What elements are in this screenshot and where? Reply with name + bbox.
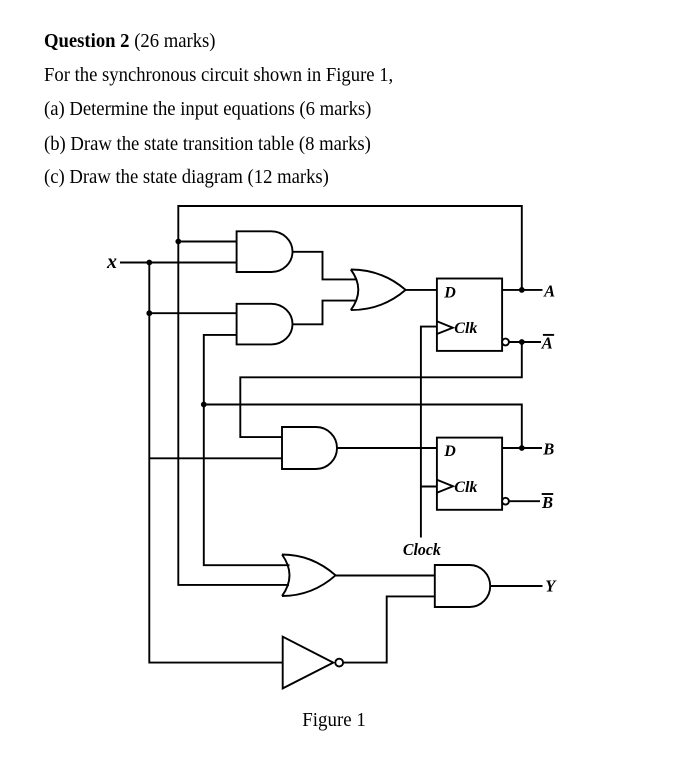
wire x branch to AND2 top input (149, 312, 236, 314)
node x input junction (146, 260, 152, 266)
wire branch A-rail to AND1 top input (178, 241, 236, 243)
wire Abar output (509, 341, 541, 343)
svg-text:A: A (541, 333, 553, 352)
and-gate U6 (output Y) (435, 565, 490, 607)
wire x-rail down to NOT input (149, 263, 282, 663)
svg-text:D: D (443, 284, 456, 301)
wire B-rail (AND2 bottom input down to OR2 top input) (204, 335, 290, 565)
svg-text:x: x (106, 251, 117, 273)
document text (44, 31, 216, 52)
wire x input (120, 262, 237, 264)
svg-text:Clk: Clk (454, 479, 477, 496)
and-gate U1 (top) (237, 231, 293, 272)
wire Bbar output (509, 500, 540, 502)
node x to AND2 junction (146, 310, 152, 316)
wire OR1 output to DFF1 D input (406, 289, 437, 291)
node A output junction (519, 287, 525, 293)
wire B feedback to B-rail (204, 405, 522, 449)
FF2 clock triangle (437, 480, 453, 493)
wire AND3 output to DFF2 D input (337, 447, 437, 449)
wire B output (502, 447, 542, 449)
wire top feedback A (from A output up and across) (178, 206, 522, 585)
FF2 Qbar bubble (502, 498, 509, 505)
wire Y output (490, 585, 542, 587)
or-gate U5 (bottom) (282, 555, 336, 597)
FF1 Qbar bubble (502, 339, 509, 346)
svg-text:Clk: Clk (454, 320, 477, 337)
wire NOT output to AND4 bottom input (343, 596, 435, 662)
svg-text:B: B (541, 493, 553, 512)
node Abar output junction (519, 339, 525, 345)
wire A output (502, 289, 542, 291)
wire clock rail (421, 327, 437, 538)
node B output junction (519, 445, 525, 451)
svg-text:B: B (542, 439, 554, 458)
wire Abar feedback to AND3 top input (240, 342, 522, 437)
Abar overbar (543, 334, 554, 336)
node A-rail to AND1 junction (175, 239, 181, 245)
wire AND2 output to OR1 bottom input (293, 301, 357, 325)
and-gate U2 (middle) (237, 304, 293, 345)
svg-text:Clock: Clock (403, 540, 441, 559)
flip-flop FF1 box (437, 279, 502, 351)
svg-text:Figure 1: Figure 1 (302, 709, 366, 731)
and-gate U4 (feeds DFF2) (282, 427, 337, 469)
wire x branch to AND3 bottom input (149, 457, 282, 459)
node B feedback junction (201, 402, 207, 408)
not-gate U7 (inverter) (283, 637, 334, 689)
svg-text:A: A (543, 281, 555, 300)
wire AND1 output to OR1 top input (293, 252, 357, 280)
inverter bubble (335, 659, 343, 667)
flip-flop FF2 box (437, 438, 502, 510)
svg-text:D: D (443, 443, 456, 460)
wire clock stub to DFF2 (421, 486, 437, 488)
wire OR2 output to AND4 top input (336, 575, 435, 577)
svg-text:Y: Y (545, 577, 557, 596)
or-gate U3 (351, 270, 406, 311)
FF1 clock triangle (437, 321, 453, 334)
Bbar overbar (542, 493, 554, 495)
